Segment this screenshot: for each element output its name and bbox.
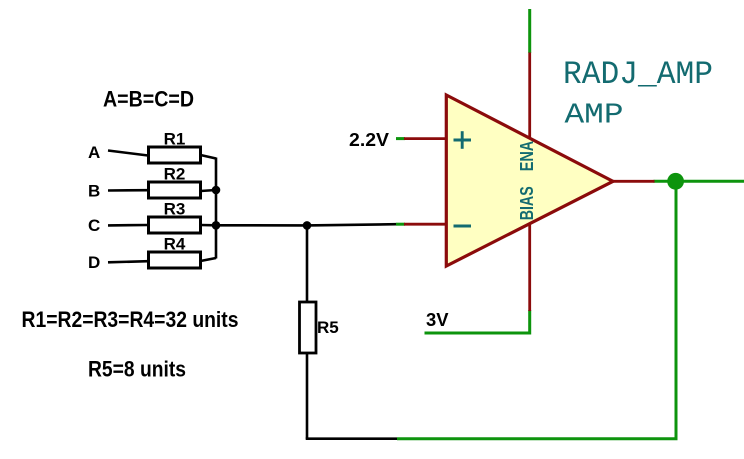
wire green stub inverting input <box>396 223 405 226</box>
svg-text:R5: R5 <box>317 318 339 337</box>
svg-text:R1=R2=R3=R4=32 units: R1=R2=R3=R4=32 units <box>22 307 239 332</box>
pin output <box>612 180 655 183</box>
wire green 3V horizontal <box>425 310 530 333</box>
output junction dot <box>667 173 684 190</box>
svg-text:2.2V: 2.2V <box>349 129 390 150</box>
svg-text:B: B <box>88 182 100 201</box>
svg-text:R4: R4 <box>164 235 186 254</box>
wire R5 top <box>306 225 309 302</box>
wire green bottom <box>397 437 678 440</box>
wire green ENA top <box>528 9 531 53</box>
wire R1 right elbow <box>201 155 217 159</box>
resistor R4 <box>149 235 201 269</box>
op-amp U1 triangle body <box>446 95 613 266</box>
wire R2 right <box>201 190 217 191</box>
svg-text:A=B=C=D: A=B=C=D <box>103 87 194 112</box>
svg-text:R5=8 units: R5=8 units <box>88 357 186 382</box>
svg-text:3V: 3V <box>426 309 449 330</box>
svg-text:RADJ_AMP: RADJ_AMP <box>563 56 713 93</box>
svg-text:AMP: AMP <box>565 99 624 132</box>
pin ENA vertical <box>528 53 531 142</box>
wire green right vertical <box>675 181 678 438</box>
resistor R2 <box>149 165 201 199</box>
wire D lead <box>108 261 148 262</box>
svg-text:R1: R1 <box>164 130 186 149</box>
resistor R3 <box>149 200 201 234</box>
wire A lead <box>108 151 148 156</box>
svg-text:BIAS: BIAS <box>517 186 537 220</box>
wire bottom black segment <box>306 437 397 440</box>
op-amp plus symbol <box>454 131 472 149</box>
wire main horizontal to inverting input <box>216 224 396 225</box>
wire R3 right <box>201 224 217 227</box>
resistor R5 <box>300 302 339 353</box>
wire R5 bottom <box>306 353 309 439</box>
svg-text:R3: R3 <box>164 200 186 219</box>
wire B lead <box>108 189 148 192</box>
svg-text:D: D <box>88 253 100 272</box>
svg-text:A: A <box>88 143 100 162</box>
wire bus vertical <box>215 158 218 259</box>
svg-text:ENA: ENA <box>517 141 537 172</box>
wire R4 right elbow <box>201 258 217 261</box>
junction dot at bus/R2 <box>212 186 221 195</box>
op-amp minus symbol <box>454 225 472 228</box>
svg-text:C: C <box>88 216 100 235</box>
pin + input <box>404 137 447 140</box>
wire green output <box>654 180 744 183</box>
junction dot at bus/R3 <box>212 221 221 230</box>
svg-text:R2: R2 <box>164 165 186 184</box>
resistor R1 <box>149 130 201 164</box>
pin - input <box>404 223 447 226</box>
pin BIAS vertical <box>528 224 531 311</box>
junction dot at R5 top <box>303 221 312 230</box>
wire green stub noninverting input <box>396 137 405 140</box>
wire C lead <box>108 224 148 227</box>
